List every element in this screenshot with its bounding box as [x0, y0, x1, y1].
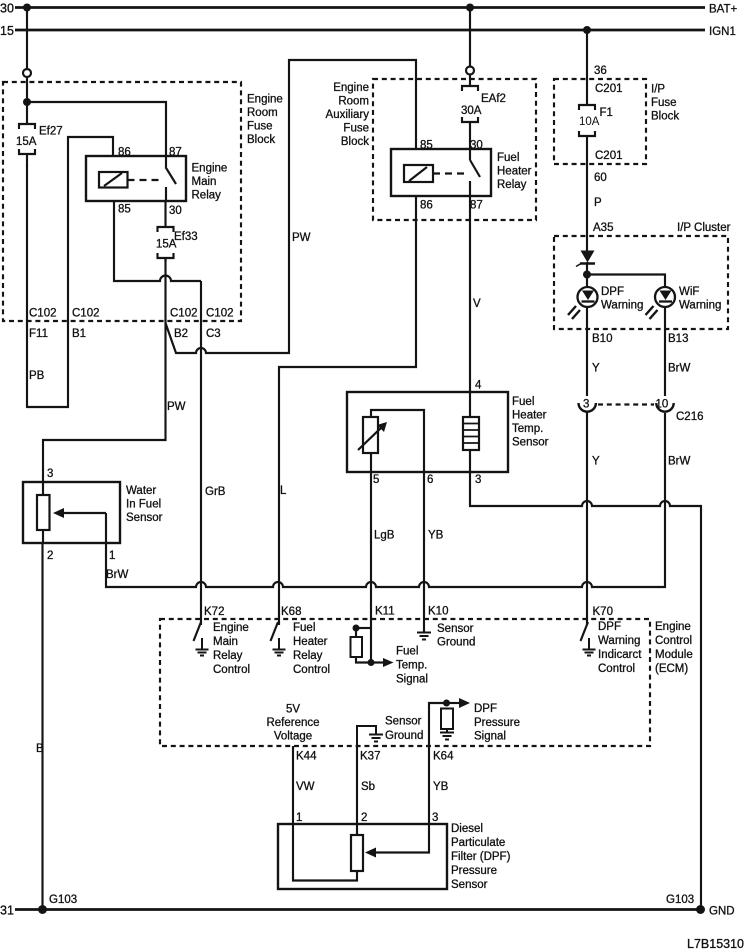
ground node G103 left — [38, 905, 47, 914]
svg-text:5V: 5V — [286, 704, 300, 716]
svg-text:DPF: DPF — [601, 286, 624, 298]
svg-text:2: 2 — [47, 550, 53, 562]
svg-text:1: 1 — [296, 812, 302, 824]
svg-text:A35: A35 — [593, 222, 613, 234]
ECM box — [160, 619, 650, 746]
svg-text:Fuel: Fuel — [512, 396, 534, 408]
svg-text:Voltage: Voltage — [274, 731, 312, 743]
diode D1 — [581, 251, 595, 263]
svg-text:Ef33: Ef33 — [174, 231, 198, 243]
svg-text:3: 3 — [583, 399, 589, 411]
svg-text:BrW: BrW — [106, 569, 129, 581]
svg-text:Auxiliary: Auxiliary — [326, 109, 370, 121]
wire Sb K37 to sensor pin2 — [356, 746, 358, 824]
svg-text:K11: K11 — [375, 606, 395, 618]
svg-text:Ground: Ground — [437, 637, 475, 649]
svg-text:IGN1: IGN1 — [709, 26, 736, 38]
svg-text:Block: Block — [651, 111, 679, 123]
svg-text:YB: YB — [428, 530, 444, 542]
svg-text:Relay: Relay — [213, 650, 243, 662]
wire IGN1 down to I/P fuse block — [586, 30, 588, 105]
engine room auxiliary fuse block box — [373, 79, 536, 220]
svg-text:K64: K64 — [433, 751, 454, 763]
svg-text:BrW: BrW — [668, 363, 691, 375]
svg-text:B13: B13 — [668, 333, 688, 345]
fuel heater relay U2 box — [391, 149, 491, 196]
svg-text:6: 6 — [427, 474, 433, 486]
svg-text:K10: K10 — [428, 606, 448, 618]
svg-text:Fuel: Fuel — [293, 622, 315, 634]
wire pin3 to B riser down to ground bus — [470, 472, 701, 909]
wire B2 branch diagonal to riser — [166, 60, 417, 353]
fuel heater temp sensor box — [347, 392, 508, 472]
svg-text:K37: K37 — [360, 751, 380, 763]
wire BrW from pin1 to ground bus — [106, 413, 665, 587]
svg-text:Warning: Warning — [679, 300, 721, 312]
svg-text:K68: K68 — [281, 606, 301, 618]
svg-text:B2: B2 — [174, 328, 188, 340]
svg-text:Main: Main — [213, 636, 238, 648]
svg-text:C102: C102 — [170, 308, 198, 320]
wire node to WiF LED — [587, 275, 665, 288]
bus 30 BAT+ — [15, 6, 705, 9]
svg-text:Relay: Relay — [293, 650, 323, 662]
DPF sensor wiper arrow — [370, 824, 429, 853]
fuse F1 — [579, 105, 595, 251]
svg-text:P: P — [594, 197, 602, 209]
svg-text:F11: F11 — [29, 328, 48, 340]
svg-text:Sensor: Sensor — [451, 879, 488, 891]
svg-text:I/P: I/P — [651, 84, 665, 96]
svg-text:86: 86 — [420, 200, 433, 212]
svg-text:BAT+: BAT+ — [709, 4, 738, 16]
svg-text:3: 3 — [47, 468, 53, 480]
bus 15 IGN1 — [15, 29, 705, 32]
svg-text:Temp.: Temp. — [512, 423, 543, 435]
svg-text:Relay: Relay — [497, 179, 527, 191]
svg-text:C102: C102 — [206, 308, 234, 320]
svg-text:Main: Main — [192, 176, 217, 188]
svg-text:EAf2: EAf2 — [481, 93, 506, 105]
svg-text:B1: B1 — [72, 328, 86, 340]
wire PB: Ef27 down F11, U-turn, up B1, to coil pin 86 — [27, 137, 113, 407]
svg-text:3: 3 — [432, 812, 438, 824]
svg-text:Diesel: Diesel — [451, 823, 483, 835]
svg-text:Room: Room — [338, 96, 369, 108]
wire pin87 V to temp sensor — [469, 196, 471, 392]
water in fuel sensor box — [23, 482, 120, 543]
water sensor wiper arrow — [58, 512, 106, 514]
wire VW K44 to sensor pin1 — [292, 746, 294, 824]
svg-text:Pressure: Pressure — [474, 717, 520, 729]
svg-text:Ground: Ground — [385, 730, 423, 742]
relay switch blade (engine main) — [165, 156, 167, 167]
node on bus 30 at x27 — [23, 4, 31, 12]
svg-text:10: 10 — [656, 399, 669, 411]
svg-text:Control: Control — [213, 664, 250, 676]
K10 sensor ground symbol — [417, 619, 431, 640]
svg-text:Engine: Engine — [213, 622, 249, 634]
svg-text:WiF: WiF — [679, 286, 699, 298]
K11 input resistor network — [353, 625, 360, 632]
engine main relay U1 box — [86, 156, 186, 201]
bus 31 GND — [15, 908, 700, 911]
LED WiF warning — [655, 287, 675, 307]
wire B13 BrW down to C216 pin10 — [664, 307, 666, 396]
svg-text:PW: PW — [292, 232, 311, 244]
K72 driver switch and ground — [194, 622, 202, 641]
svg-text:87: 87 — [470, 200, 483, 212]
svg-text:60: 60 — [594, 172, 607, 184]
svg-text:Filter (DPF): Filter (DPF) — [451, 851, 511, 863]
I/P fuse block box — [554, 79, 646, 164]
svg-text:Sensor: Sensor — [385, 716, 422, 728]
svg-text:30: 30 — [169, 205, 182, 217]
svg-text:Sensor: Sensor — [126, 512, 163, 524]
node on bus 30 at x470 — [466, 4, 474, 12]
svg-text:30: 30 — [470, 140, 483, 152]
svg-text:Temp.: Temp. — [396, 660, 427, 672]
svg-text:C201: C201 — [595, 83, 623, 95]
svg-text:C102: C102 — [29, 308, 57, 320]
svg-text:Engine: Engine — [192, 163, 228, 175]
svg-text:Signal: Signal — [474, 731, 506, 743]
svg-text:Module: Module — [655, 649, 693, 661]
svg-text:K44: K44 — [296, 751, 317, 763]
K64 internal pullup and signal arrow — [429, 703, 446, 746]
svg-text:3: 3 — [475, 474, 481, 486]
connector C216 pin10 arc — [656, 403, 673, 412]
svg-text:30: 30 — [0, 2, 14, 16]
svg-text:30A: 30A — [461, 105, 482, 117]
svg-text:I/P Cluster: I/P Cluster — [677, 222, 731, 234]
fuse Ef33 — [158, 201, 174, 262]
svg-text:Block: Block — [341, 136, 369, 148]
svg-text:Control: Control — [293, 664, 330, 676]
svg-text:Indicarct: Indicarct — [598, 649, 642, 661]
svg-text:1: 1 — [109, 550, 115, 562]
svg-text:Y: Y — [592, 456, 600, 468]
wire bus30 down to EAf2 — [469, 8, 471, 67]
svg-text:15A: 15A — [16, 136, 37, 148]
connector C216 pin3 arc — [579, 403, 596, 412]
svg-text:YB: YB — [433, 781, 449, 793]
svg-text:GND: GND — [709, 906, 735, 918]
svg-text:B10: B10 — [592, 333, 612, 345]
wire pin85 across to C3 — [114, 201, 201, 281]
svg-text:15A: 15A — [156, 239, 177, 251]
svg-text:BrW: BrW — [668, 456, 691, 468]
svg-text:Control: Control — [655, 635, 692, 647]
connector circle at fuse block entry — [23, 69, 31, 77]
K68 driver switch and ground — [271, 622, 279, 641]
svg-text:Water: Water — [126, 485, 156, 497]
wire node to relay pin 87 — [27, 102, 166, 156]
K37 internal ground symbol — [357, 726, 383, 746]
node after diode — [583, 271, 591, 279]
ground node G103 right — [696, 905, 705, 914]
svg-text:2: 2 — [361, 812, 367, 824]
wire B left to ground bus — [41, 543, 43, 909]
svg-text:87: 87 — [169, 147, 182, 159]
svg-text:B: B — [36, 743, 44, 755]
svg-text:GrB: GrB — [205, 486, 226, 498]
svg-text:4: 4 — [475, 380, 482, 392]
svg-text:5: 5 — [373, 474, 379, 486]
water sensor resistor — [37, 495, 50, 530]
svg-text:G103: G103 — [49, 894, 77, 906]
svg-text:DPF: DPF — [598, 621, 621, 633]
svg-text:Signal: Signal — [396, 674, 428, 686]
fuse Ef27 — [19, 102, 35, 166]
wire B10 Y down to C216 pin3 — [586, 307, 588, 396]
relay coil (fuel heater) — [404, 165, 433, 182]
svg-text:Room: Room — [247, 107, 278, 119]
temp sensor variable resistor — [363, 417, 378, 453]
svg-text:PB: PB — [29, 370, 45, 382]
svg-text:Warning: Warning — [601, 300, 643, 312]
svg-text:36: 36 — [594, 65, 607, 77]
svg-text:C102: C102 — [72, 308, 100, 320]
svg-text:LgB: LgB — [374, 530, 395, 542]
svg-text:Heater: Heater — [512, 410, 547, 422]
svg-text:K72: K72 — [204, 606, 224, 618]
relay switch blade (fuel heater) — [469, 149, 471, 160]
svg-text:Engine: Engine — [655, 621, 691, 633]
wire bus30 down to engine room fuse block — [26, 8, 28, 70]
heater element — [463, 417, 479, 450]
connector circle at aux fuse block — [466, 67, 474, 75]
svg-text:C216: C216 — [676, 411, 704, 423]
wire C3 / GrB down to K72 — [200, 281, 202, 625]
svg-text:Engine: Engine — [247, 94, 283, 106]
wire Y to K70 — [586, 412, 588, 625]
svg-text:Control: Control — [598, 663, 635, 675]
svg-text:L: L — [280, 485, 287, 497]
svg-text:Sensor: Sensor — [512, 437, 549, 449]
C216 dashed pairing line — [598, 403, 654, 405]
DPF pressure sensor box — [278, 824, 447, 889]
node A junction in fuse block — [23, 98, 31, 106]
svg-text:K70: K70 — [593, 606, 613, 618]
svg-text:Fuel: Fuel — [396, 646, 418, 658]
node on bus 15 at x587 — [583, 26, 591, 34]
svg-text:Fuse: Fuse — [343, 123, 369, 135]
svg-text:Fuse: Fuse — [651, 97, 677, 109]
engine room fuse block box — [3, 82, 241, 321]
svg-text:Relay: Relay — [192, 190, 222, 202]
I/P cluster box — [554, 236, 728, 329]
svg-text:Ef27: Ef27 — [39, 126, 63, 138]
svg-text:Sensor: Sensor — [437, 623, 474, 635]
svg-text:Particulate: Particulate — [451, 837, 505, 849]
LED DPF warning — [578, 287, 598, 307]
svg-text:Sb: Sb — [361, 781, 375, 793]
svg-text:Pressure: Pressure — [451, 865, 497, 877]
svg-text:Warning: Warning — [598, 635, 640, 647]
svg-text:Reference: Reference — [266, 717, 319, 729]
svg-text:Fuel: Fuel — [497, 152, 519, 164]
svg-text:G103: G103 — [666, 894, 694, 906]
svg-text:(ECM): (ECM) — [655, 663, 688, 675]
svg-text:PW: PW — [167, 401, 186, 413]
svg-text:Block: Block — [247, 134, 275, 146]
wire YB K64 to sensor pin3 — [428, 746, 430, 824]
svg-text:Heater: Heater — [293, 636, 328, 648]
svg-text:Y: Y — [592, 363, 600, 375]
wire pin86 to L riser — [279, 196, 416, 625]
wire circle to node — [26, 77, 28, 104]
svg-text:31: 31 — [0, 904, 14, 918]
svg-text:86: 86 — [118, 147, 131, 159]
wire LgB pin5 to K11 — [370, 472, 372, 662]
DPF sensor resistor — [351, 835, 363, 871]
svg-text:C3: C3 — [206, 328, 221, 340]
svg-text:Fuse: Fuse — [247, 121, 273, 133]
svg-text:L7B15310: L7B15310 — [687, 937, 744, 951]
svg-text:Heater: Heater — [497, 166, 532, 178]
fuse EAf2 — [462, 75, 478, 150]
svg-text:Engine: Engine — [333, 82, 369, 94]
svg-text:In Fuel: In Fuel — [126, 499, 161, 511]
relay coil (engine main) — [99, 172, 128, 188]
svg-text:10A: 10A — [579, 116, 600, 128]
svg-text:85: 85 — [420, 140, 433, 152]
wire PW from Ef33 down through B2 to jog — [43, 258, 166, 482]
K70 driver switch and ground — [581, 622, 589, 641]
wire YB pin6 to K10 — [423, 472, 425, 632]
svg-text:C201: C201 — [595, 150, 623, 162]
svg-text:V: V — [473, 298, 481, 310]
svg-text:DPF: DPF — [474, 703, 497, 715]
coil-switch dashed link — [128, 179, 163, 181]
svg-text:F1: F1 — [600, 107, 613, 119]
svg-text:VW: VW — [296, 781, 315, 793]
svg-text:15: 15 — [0, 24, 14, 38]
svg-text:85: 85 — [118, 204, 131, 216]
coil-switch dashed link — [433, 172, 466, 174]
